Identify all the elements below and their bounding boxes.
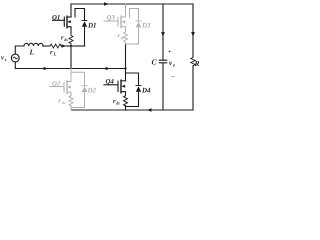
- Q4 body arrow: [121, 85, 125, 88]
- wire D1 bottom to node A: [71, 45, 85, 47]
- diode D2: [82, 85, 87, 87]
- node B junction: [124, 67, 126, 69]
- wire source top riser: [15, 46, 24, 54]
- svg-text:ds: ds: [116, 101, 120, 106]
- arrow cap branch down: [161, 32, 165, 37]
- node A junction: [70, 45, 72, 47]
- arrow bottom rail: [147, 108, 152, 111]
- svg-text:Q1: Q1: [52, 14, 60, 21]
- arrow mid wire left 1: [41, 67, 46, 70]
- diode D1: [82, 20, 87, 22]
- arrow R branch down: [191, 32, 195, 37]
- diode D4: [136, 85, 141, 87]
- Q2 body arrow: [67, 86, 71, 89]
- diode D3: [136, 20, 141, 22]
- wire D2 jog: [71, 72, 85, 86]
- Q4 mosfet: [104, 84, 118, 86]
- Q2 drain riser: [70, 69, 72, 82]
- svg-text:v: v: [1, 55, 4, 62]
- svg-text:ds: ds: [121, 35, 125, 40]
- resistor rs1: [69, 33, 73, 46]
- wire D2 bottom box: [71, 107, 85, 109]
- svg-text:−: −: [171, 75, 175, 81]
- resistor rL: [49, 44, 62, 48]
- gray inactive leg Q2: [50, 69, 87, 111]
- wire D3 jog: [130, 9, 139, 22]
- svg-text:Q2: Q2: [52, 80, 61, 87]
- diode D2 triangle: [82, 87, 87, 93]
- resistor rs3: [124, 32, 128, 43]
- node A down wire: [70, 46, 72, 69]
- Q1 body arrow: [67, 20, 71, 23]
- top rail: [71, 3, 193, 5]
- svg-text:D2: D2: [87, 87, 97, 95]
- load R branch: [192, 4, 194, 57]
- diode D3 triangle: [136, 22, 141, 28]
- Q1 mosfet: [53, 19, 65, 21]
- capacitor branch wire: [162, 4, 164, 60]
- diode D1 triangle: [82, 21, 87, 27]
- Q2 mosfet: [50, 86, 64, 88]
- capacitor C plates: [159, 60, 166, 63]
- sine inside source: [13, 57, 17, 59]
- svg-text:D1: D1: [87, 22, 97, 30]
- resistor R: [191, 57, 195, 66]
- wire L to rL: [43, 45, 49, 47]
- inductor L: [24, 43, 43, 46]
- gray inactive leg Q3: [104, 4, 141, 44]
- bottom rail: [71, 109, 193, 111]
- svg-text:D3: D3: [141, 22, 151, 30]
- Q3 drain riser: [125, 4, 127, 17]
- svg-text:ds: ds: [62, 100, 66, 105]
- arrow top rail: [104, 2, 109, 6]
- wire D4 bottom box: [126, 106, 139, 108]
- Q4 drain riser: [125, 69, 127, 81]
- wire D3 bottom box: [126, 43, 139, 45]
- wire rL to node A: [62, 45, 71, 47]
- svg-text:D4: D4: [141, 87, 151, 95]
- svg-text:+: +: [168, 50, 172, 56]
- svg-text:L: L: [29, 48, 35, 57]
- resistor rs4: [124, 96, 128, 107]
- Q3 body arrow: [121, 20, 125, 23]
- svg-text:s: s: [4, 57, 7, 62]
- node B vertical: [125, 44, 127, 69]
- svg-text:ds: ds: [64, 37, 68, 42]
- svg-text:L: L: [53, 52, 57, 57]
- Q1 drain riser: [70, 4, 72, 17]
- svg-text:Q3: Q3: [107, 14, 116, 21]
- diode D4 triangle: [136, 86, 141, 92]
- svg-text:Q4: Q4: [106, 79, 115, 86]
- svg-text:C: C: [152, 58, 158, 67]
- arrow mid wire left 2: [103, 67, 108, 70]
- source vs circle: [11, 54, 19, 62]
- wire D4 jog: [126, 73, 139, 86]
- resistor rs2: [69, 96, 73, 107]
- Q3 mosfet: [104, 20, 118, 22]
- svg-text:R: R: [194, 59, 200, 68]
- svg-text:o: o: [173, 63, 176, 68]
- arrow input current: [62, 44, 67, 47]
- wire D1 jog: [75, 9, 85, 21]
- middle wire: [15, 62, 125, 69]
